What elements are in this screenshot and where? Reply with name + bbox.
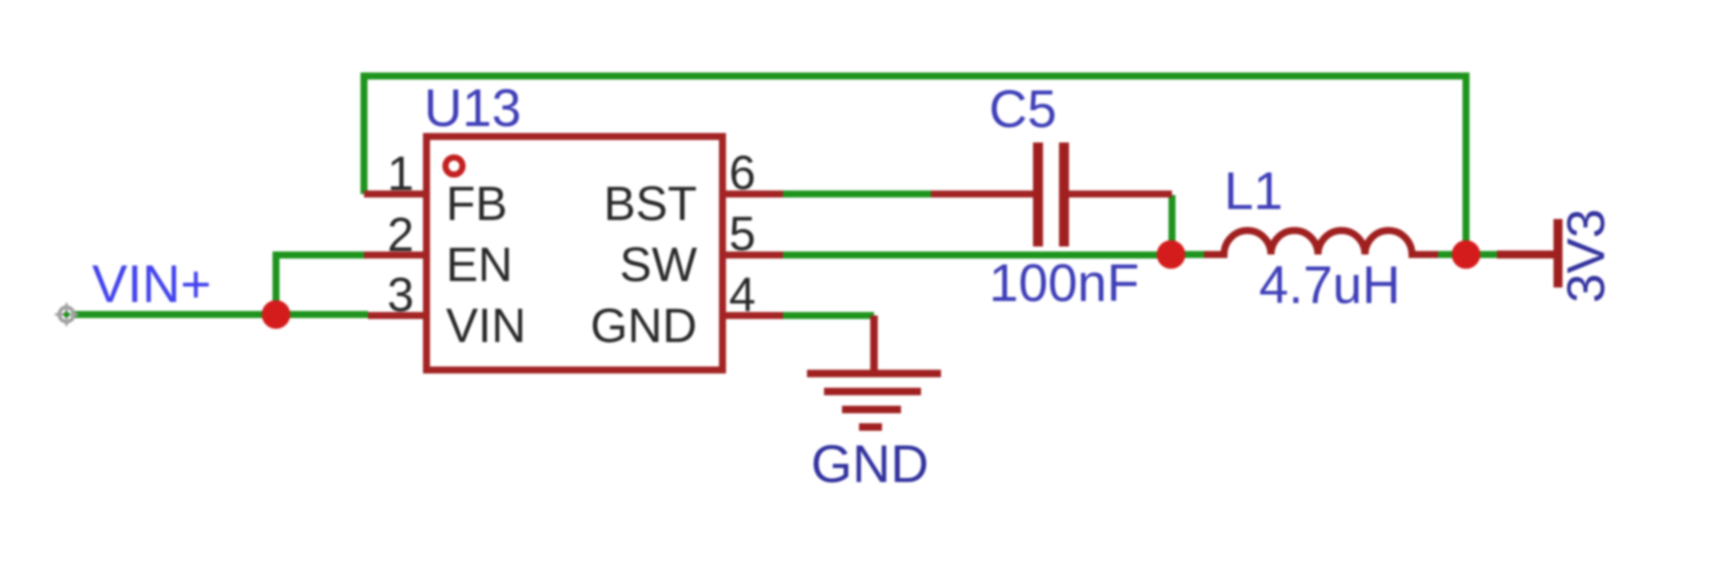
svg-text:GND: GND: [811, 435, 929, 494]
svg-text:3V3: 3V3: [1557, 209, 1616, 303]
svg-text:4: 4: [729, 269, 756, 322]
svg-text:SW: SW: [620, 239, 698, 292]
svg-text:2: 2: [387, 209, 414, 262]
svg-text:VIN: VIN: [446, 300, 526, 353]
svg-text:3: 3: [387, 269, 414, 322]
svg-text:L1: L1: [1224, 162, 1283, 221]
svg-text:1: 1: [387, 148, 414, 201]
svg-text:GND: GND: [590, 300, 697, 353]
svg-text:EN: EN: [446, 239, 513, 292]
svg-text:4.7uH: 4.7uH: [1259, 256, 1400, 315]
svg-text:VIN+: VIN+: [92, 255, 211, 314]
svg-text:U13: U13: [424, 79, 521, 138]
svg-text:100nF: 100nF: [989, 254, 1139, 313]
svg-text:6: 6: [729, 147, 756, 200]
svg-text:C5: C5: [989, 80, 1057, 139]
svg-text:FB: FB: [446, 178, 507, 231]
svg-text:BST: BST: [604, 178, 697, 231]
svg-text:5: 5: [729, 208, 756, 261]
